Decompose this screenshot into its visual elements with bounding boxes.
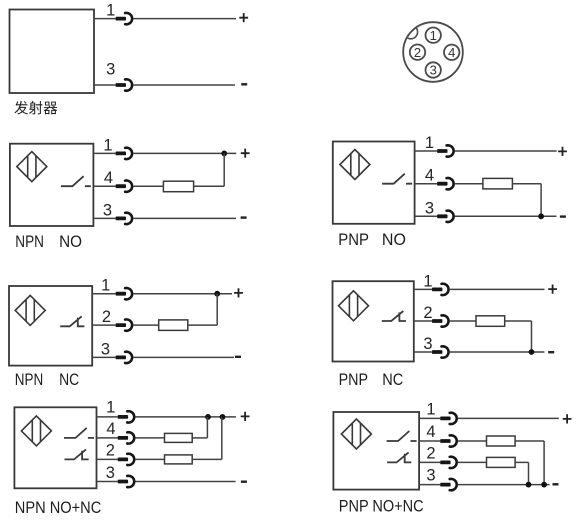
svg-text:NPN: NPN <box>15 371 43 389</box>
svg-text:1: 1 <box>426 400 435 418</box>
connector plug pin3 <box>440 483 450 487</box>
junction node <box>214 291 220 297</box>
connector plug pin3 <box>116 83 126 87</box>
junction node a <box>526 482 532 488</box>
wire pin1 to plus <box>458 417 559 419</box>
svg-text:1: 1 <box>101 277 110 295</box>
wire pin3 to minus <box>133 84 235 86</box>
junction node b <box>220 414 226 420</box>
svg-text:PNP: PNP <box>339 371 368 389</box>
wire pin4 to load1 <box>458 440 487 442</box>
wire pin1 stub <box>94 18 116 20</box>
svg-text:4: 4 <box>106 420 115 438</box>
svg-text:PNP: PNP <box>338 231 369 249</box>
NO contact <box>61 176 91 186</box>
svg-text:1: 1 <box>430 28 437 43</box>
svg-text:1: 1 <box>423 272 432 290</box>
connector plug pin1 <box>440 417 450 421</box>
wire pin2 to load <box>450 320 476 322</box>
wire pin4 stub <box>419 440 440 442</box>
wire pin3 to minus <box>135 481 235 483</box>
wire load to node <box>194 185 225 187</box>
wire pin4 stub <box>415 183 438 185</box>
minus terminal <box>241 216 247 218</box>
sensor symbol U-pnp-nonc <box>341 419 371 449</box>
svg-text:3: 3 <box>430 63 437 78</box>
junction node <box>529 349 535 355</box>
sensor symbol U-npn-nonc <box>21 416 51 446</box>
wire pin1 to plus <box>450 288 545 290</box>
svg-text:4: 4 <box>425 167 434 185</box>
wire pin3 to minus <box>133 356 234 358</box>
wire pin1 stub <box>93 152 115 154</box>
plus terminal <box>558 147 567 156</box>
connector pin 2 <box>410 45 425 60</box>
wire corner down b <box>528 462 530 484</box>
svg-text:NO: NO <box>59 233 82 251</box>
connector plug pin4 <box>118 436 128 440</box>
wire pin1 to plus <box>133 18 236 20</box>
wire pin3 stub <box>94 84 116 86</box>
plus terminal <box>239 13 248 22</box>
svg-text:1: 1 <box>103 136 112 154</box>
wire load1 to corner <box>192 437 207 439</box>
wire load2 to corner <box>192 458 222 460</box>
keying notch <box>404 25 418 39</box>
connector plug pin4 <box>440 439 450 443</box>
sensor symbol U-npn-nc <box>15 295 45 325</box>
wire pin1 stub <box>92 293 115 295</box>
connector plug pin2 <box>440 461 450 465</box>
wire pin4 to load <box>133 185 163 187</box>
connector plug pin1 <box>116 152 126 156</box>
minus terminal <box>235 356 241 358</box>
svg-text:1: 1 <box>106 2 115 20</box>
wire pin2 stub <box>414 320 432 322</box>
sensor symbol U-npn-no <box>17 152 47 182</box>
wire pin3 to minus <box>455 215 557 217</box>
svg-text:3: 3 <box>106 61 115 79</box>
wire pin3 to minus <box>450 351 545 353</box>
junction node <box>221 151 227 157</box>
svg-text:NPN: NPN <box>15 233 44 251</box>
wire pin1 stub <box>414 288 432 290</box>
NC contact <box>65 449 89 459</box>
wire pin2 to load <box>133 324 159 326</box>
connector plug pin4 <box>116 184 126 188</box>
plus terminal <box>241 412 250 421</box>
wire load to corner <box>512 183 541 185</box>
minus terminal <box>553 483 559 485</box>
PNP NC sensor box <box>333 281 414 361</box>
wire load1 to corner <box>515 440 544 442</box>
svg-text:NC: NC <box>59 371 79 389</box>
svg-text:PNP NO+NC: PNP NO+NC <box>339 498 424 516</box>
svg-text:2: 2 <box>106 441 115 459</box>
svg-text:NC: NC <box>382 371 403 389</box>
connector plug pin4 <box>437 182 447 186</box>
wire corner up b <box>221 417 223 460</box>
wire corner up a <box>206 417 208 438</box>
sensor symbol U-pnp-nc <box>339 291 369 321</box>
svg-text:3: 3 <box>423 335 432 353</box>
wire pin3 stub <box>415 215 438 217</box>
NO contact <box>64 428 94 438</box>
wire pin2 to load2 <box>458 461 487 463</box>
connector plug pin2 <box>432 319 442 323</box>
wire pin3 stub <box>414 351 432 353</box>
wire pin1 to plus <box>133 293 232 295</box>
svg-text:3: 3 <box>425 199 434 217</box>
wire pin2 stub <box>92 324 115 326</box>
load resistor <box>163 181 193 192</box>
wire pin1 to plus <box>133 152 236 154</box>
svg-text:3: 3 <box>101 340 110 358</box>
wire corner up <box>216 294 218 325</box>
minus terminal <box>241 83 247 85</box>
svg-text:2: 2 <box>423 304 432 322</box>
wire pin1 to plus <box>455 150 557 152</box>
connector plug pin1 <box>116 292 126 296</box>
svg-text:3: 3 <box>106 464 115 482</box>
NO contact <box>387 431 417 441</box>
NPN NO sensor box <box>10 144 94 226</box>
wire pin4 stub <box>97 437 118 439</box>
plus terminal <box>241 149 250 158</box>
NO contact <box>382 174 412 184</box>
NC contact <box>382 311 406 321</box>
connector plug pin1 <box>116 17 126 21</box>
connector plug pin3 <box>437 214 447 218</box>
wire pin1 stub <box>97 416 118 418</box>
connector plug pin3 <box>116 356 126 360</box>
wire pin3 to minus <box>133 217 236 219</box>
wire pin3 stub <box>93 217 115 219</box>
junction node b <box>541 482 547 488</box>
wire load2 to corner <box>515 461 528 463</box>
junction node a <box>205 414 211 420</box>
connector pin 4 <box>444 45 459 60</box>
transmitter box <box>10 10 95 94</box>
minus terminal <box>241 481 247 483</box>
load resistor R2 <box>165 455 193 464</box>
connector plug pin1 <box>118 415 128 419</box>
label 发射器 <box>14 101 57 115</box>
connector plug pin1 <box>432 288 442 292</box>
load resistor R2 <box>487 457 516 467</box>
wire pin3 to minus <box>458 484 550 486</box>
svg-text:3: 3 <box>426 467 435 485</box>
wire pin2 stub <box>97 458 118 460</box>
svg-text:2: 2 <box>414 45 421 60</box>
svg-text:2: 2 <box>426 444 435 462</box>
load resistor <box>476 316 505 327</box>
sensor symbol U-pnp-no <box>340 150 370 180</box>
svg-text:2: 2 <box>102 308 111 326</box>
M12 connector face <box>403 22 463 82</box>
NC contact <box>387 452 411 462</box>
wire corner down <box>540 184 542 217</box>
connector pin 1 <box>426 28 441 43</box>
load resistor <box>483 178 513 189</box>
PNP NO+NC sensor box <box>333 412 419 490</box>
junction node <box>538 213 544 219</box>
minus terminal <box>548 351 554 353</box>
wire pin3 stub <box>97 481 118 483</box>
wire load to corner <box>188 324 217 326</box>
svg-text:4: 4 <box>448 45 455 60</box>
connector plug pin3 <box>116 217 126 221</box>
connector plug pin2 <box>118 458 128 462</box>
wire node up <box>223 153 225 186</box>
svg-text:4: 4 <box>426 423 435 441</box>
wire pin4 to load1 <box>135 437 164 439</box>
connector plug pin2 <box>116 323 126 327</box>
load resistor R1 <box>487 436 516 446</box>
wire pin4 to load <box>455 183 483 185</box>
svg-text:3: 3 <box>103 201 112 219</box>
connector pin 3 <box>426 62 441 77</box>
wire load to corner <box>505 320 532 322</box>
NPN NO+NC sensor box <box>14 407 96 488</box>
connector plug pin1 <box>437 149 447 153</box>
load resistor R1 <box>165 433 193 442</box>
wire pin1 stub <box>419 417 440 419</box>
wire pin3 stub <box>92 356 115 358</box>
load resistor <box>159 320 188 331</box>
wire pin2 stub <box>419 461 440 463</box>
connector plug pin3 <box>432 350 442 354</box>
wire pin3 stub <box>419 484 440 486</box>
plus terminal <box>548 285 557 294</box>
NPN NC sensor box <box>9 286 92 366</box>
wire pin4 stub <box>93 185 115 187</box>
minus terminal <box>560 215 566 217</box>
plus terminal <box>234 288 243 297</box>
wire corner down a <box>543 441 545 485</box>
svg-text:1: 1 <box>425 134 434 152</box>
svg-text:1: 1 <box>106 399 115 417</box>
wire corner down <box>531 321 533 352</box>
wire pin1 to plus <box>135 416 236 418</box>
connector plug pin3 <box>118 480 128 484</box>
wire pin2 to load2 <box>135 458 164 460</box>
plus terminal <box>563 414 572 423</box>
svg-text:4: 4 <box>104 169 113 187</box>
svg-text:NPN NO+NC: NPN NO+NC <box>15 499 102 517</box>
PNP NO sensor box <box>333 142 415 224</box>
svg-text:NO: NO <box>382 231 406 249</box>
NC contact <box>60 316 84 326</box>
wire pin1 stub <box>415 150 438 152</box>
